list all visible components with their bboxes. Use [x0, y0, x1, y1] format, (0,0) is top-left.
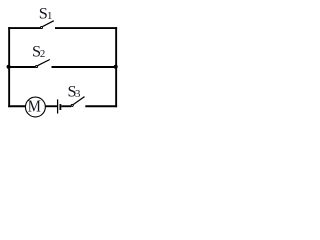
wire: top right segment	[55, 27, 117, 29]
wire: middle right segment	[52, 66, 118, 68]
background	[0, 0, 130, 128]
wire: middle left segment	[8, 66, 35, 68]
node: left junction	[7, 65, 11, 69]
svg-text:3: 3	[75, 88, 80, 100]
wire: motor to battery	[46, 105, 58, 107]
wire: right vertical	[115, 27, 117, 107]
wire: top left segment	[8, 27, 40, 29]
svg-text:1: 1	[47, 10, 52, 22]
wire: battery to S3	[61, 105, 71, 107]
svg-text:M: M	[28, 98, 41, 116]
wire: bottom left segment	[8, 105, 25, 107]
wire: left vertical	[8, 27, 10, 107]
switch S3	[71, 97, 84, 107]
node: right junction	[114, 65, 118, 69]
switch S1	[40, 21, 53, 29]
battery cell: long positive plate	[57, 99, 59, 113]
motor M	[25, 97, 45, 117]
switch S2	[36, 60, 50, 68]
battery cell: short negative plate	[59, 104, 61, 110]
svg-text:2: 2	[40, 48, 45, 60]
wire: bottom right segment	[85, 105, 117, 107]
